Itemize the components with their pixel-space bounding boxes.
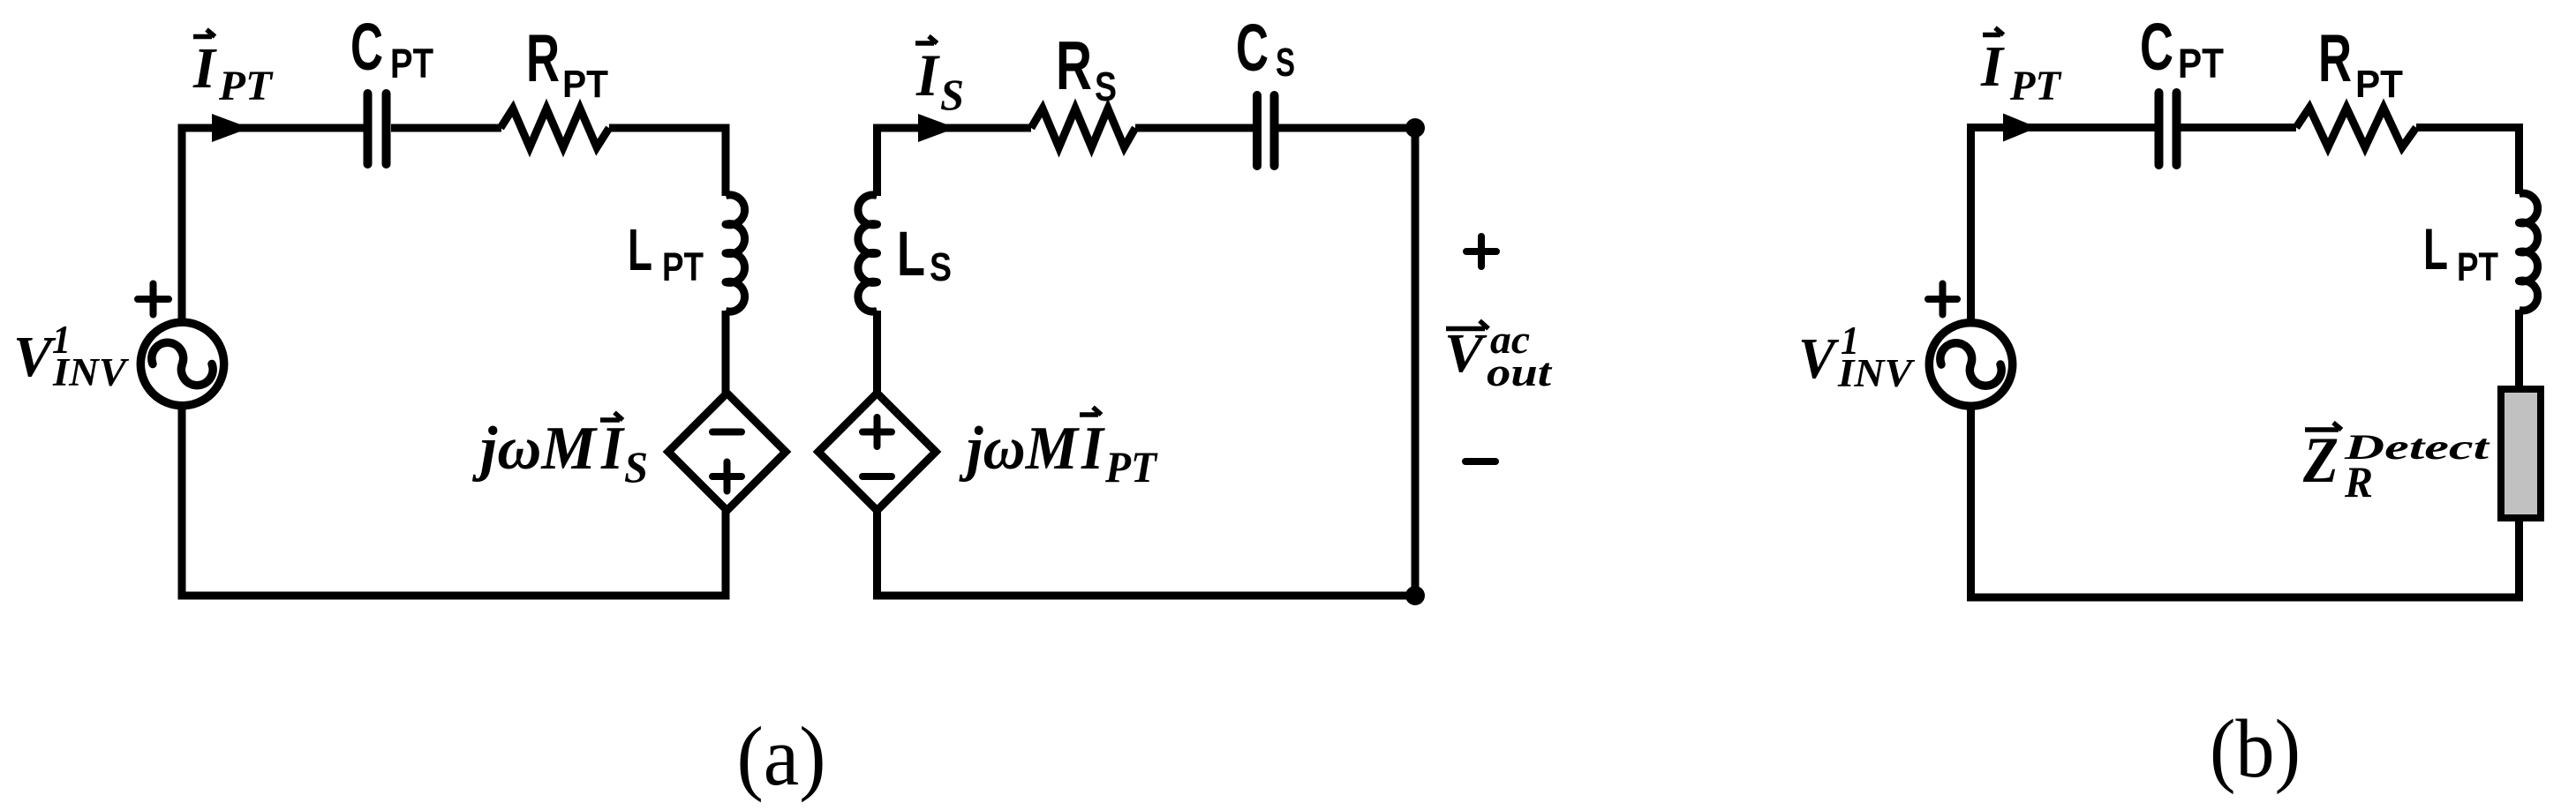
svg-text:L: L bbox=[628, 217, 652, 283]
svg-text:out: out bbox=[1487, 350, 1553, 394]
inductor L_S (a) bbox=[858, 195, 877, 311]
label C_PT (a) bbox=[350, 10, 433, 86]
resistor R_S (a) bbox=[1031, 109, 1135, 147]
inductor L_PT (a) bbox=[726, 195, 745, 311]
svg-text:PT: PT bbox=[1104, 442, 1158, 491]
svg-text:S: S bbox=[1095, 64, 1117, 109]
impedance Z_R_Detect box (b) bbox=[2501, 389, 2541, 518]
wire bottom loop2 + right rail + top right (a) bbox=[877, 128, 1416, 596]
svg-text:R: R bbox=[1056, 26, 1092, 104]
label R_S (a) bbox=[1056, 26, 1117, 109]
label R_PT (a) bbox=[526, 21, 608, 106]
svg-text:L: L bbox=[897, 220, 925, 289]
svg-text:S: S bbox=[1276, 40, 1295, 85]
svg-text:INV: INV bbox=[1837, 351, 1916, 395]
voltage source V1_INV circle (b) bbox=[1929, 323, 2012, 406]
svg-text:PT: PT bbox=[2457, 244, 2498, 289]
label V1_INV (a) bbox=[13, 318, 130, 394]
minus sign in left diamond bbox=[712, 429, 742, 436]
svg-text:Z: Z bbox=[2302, 424, 2339, 497]
capacitor C_PT (a) bbox=[368, 94, 387, 164]
current arrow I_PT (b) bbox=[2003, 114, 2037, 142]
label L_S (a) bbox=[897, 220, 952, 289]
svg-text:PT: PT bbox=[390, 40, 433, 86]
wire left rail + top wire (b) bbox=[1971, 128, 2156, 326]
voltage source V1_INV circle (a) bbox=[140, 322, 223, 405]
svg-text:S: S bbox=[930, 244, 952, 289]
svg-text:I: I bbox=[1980, 34, 2005, 99]
capacitor C_PT (b) bbox=[2159, 93, 2177, 165]
svg-text:PT: PT bbox=[2009, 63, 2062, 109]
minus sign in right diamond bbox=[862, 473, 892, 480]
svg-text:V: V bbox=[1444, 324, 1488, 384]
svg-text:V: V bbox=[13, 325, 56, 389]
label I_S (a) with vector arrow bbox=[915, 36, 964, 119]
svg-text:PT: PT bbox=[562, 63, 608, 106]
wire L_PT to dependent source (a) bbox=[722, 311, 730, 394]
svg-text:C: C bbox=[350, 10, 383, 84]
label jwMI_S (a) with vector arrow bbox=[471, 413, 648, 492]
wire L_PT to Z box (b) bbox=[2515, 310, 2523, 389]
plus sign above source (b) bbox=[1928, 284, 1957, 315]
label jwMI_PT (a) with vector arrow bbox=[958, 408, 1158, 492]
node dot bottom right (a) bbox=[1405, 586, 1425, 605]
svg-text:PT: PT bbox=[2178, 40, 2224, 86]
wire R_PT to top-right corner down to L_PT (a) bbox=[609, 128, 726, 196]
wire R_S to C_S (a) bbox=[1135, 124, 1253, 132]
label V1_INV (b) bbox=[1798, 319, 1916, 395]
current arrow I_PT (a) bbox=[212, 114, 250, 142]
svg-text:C: C bbox=[1236, 11, 1269, 85]
sine wave inside source (b) bbox=[1940, 343, 2001, 386]
node dot top right (a) bbox=[1405, 118, 1425, 138]
svg-text:R: R bbox=[526, 21, 560, 96]
svg-text:jωM: jωM bbox=[958, 415, 1080, 483]
svg-text:I: I bbox=[915, 41, 940, 109]
sine wave inside source (a) bbox=[152, 342, 213, 385]
wire Z box to bottom + bottom wire + left rail bottom (b) bbox=[1971, 405, 2520, 597]
plus sign output (a) bbox=[1466, 236, 1496, 266]
resistor R_PT (a) bbox=[501, 109, 609, 147]
svg-text:I: I bbox=[1081, 415, 1105, 483]
svg-text:jωM: jωM bbox=[471, 415, 599, 483]
plus sign in right diamond bbox=[862, 417, 892, 446]
dependent source jwMIpt diamond (a) bbox=[818, 394, 936, 511]
current arrow I_S (a) bbox=[918, 114, 956, 142]
wire bottom loop1 + left rail bottom (a) bbox=[182, 405, 726, 596]
dependent source jwMIs diamond (a) bbox=[668, 394, 786, 511]
svg-text:(b): (b) bbox=[2210, 703, 2301, 795]
svg-text:I: I bbox=[600, 415, 625, 483]
minus sign output (a) bbox=[1465, 458, 1495, 465]
label I_PT (a) with vector arrow bbox=[192, 30, 274, 110]
svg-text:PT: PT bbox=[2355, 63, 2403, 106]
svg-text:INV: INV bbox=[52, 350, 130, 394]
label C_S (a) bbox=[1236, 11, 1295, 85]
svg-text:PT: PT bbox=[218, 63, 274, 109]
label Z_R_Detect (b) with vector arrow bbox=[2302, 423, 2491, 506]
wire L_S to dependent source (a) bbox=[873, 311, 881, 394]
resistor R_PT (b) bbox=[2296, 108, 2416, 147]
label L_PT (a) bbox=[628, 217, 704, 289]
svg-text:PT: PT bbox=[662, 244, 704, 289]
label R_PT (b) bbox=[2318, 21, 2403, 106]
label V_out_ac (a) with vector arrow bbox=[1444, 318, 1553, 394]
svg-text:S: S bbox=[940, 70, 964, 119]
svg-text:R: R bbox=[2344, 457, 2373, 506]
label L_PT (b) bbox=[2423, 216, 2498, 289]
svg-text:(a): (a) bbox=[737, 709, 826, 803]
svg-text:S: S bbox=[624, 442, 648, 491]
wire between C_PT and R_PT (a) bbox=[391, 124, 501, 132]
capacitor C_S (a) bbox=[1257, 95, 1275, 166]
inductor L_PT (b) bbox=[2520, 193, 2538, 311]
svg-text:I: I bbox=[192, 36, 217, 101]
wire R_PT to corner down to L_PT (b) bbox=[2416, 128, 2520, 195]
svg-text:L: L bbox=[2423, 216, 2448, 281]
wire C_PT to R_PT (b) bbox=[2181, 124, 2296, 131]
svg-text:C: C bbox=[2140, 10, 2173, 84]
plus sign in left diamond bbox=[712, 462, 742, 491]
svg-text:V: V bbox=[1798, 326, 1840, 391]
wire left rail + top wire loop1 (a) bbox=[182, 128, 364, 324]
label I_PT (b) with vector arrow bbox=[1980, 28, 2062, 110]
plus sign above source (a) bbox=[138, 284, 169, 315]
svg-text:R: R bbox=[2318, 21, 2352, 96]
wire top loop2 + left rail loop2 (a) bbox=[877, 128, 1032, 196]
label C_PT (b) bbox=[2140, 10, 2224, 86]
